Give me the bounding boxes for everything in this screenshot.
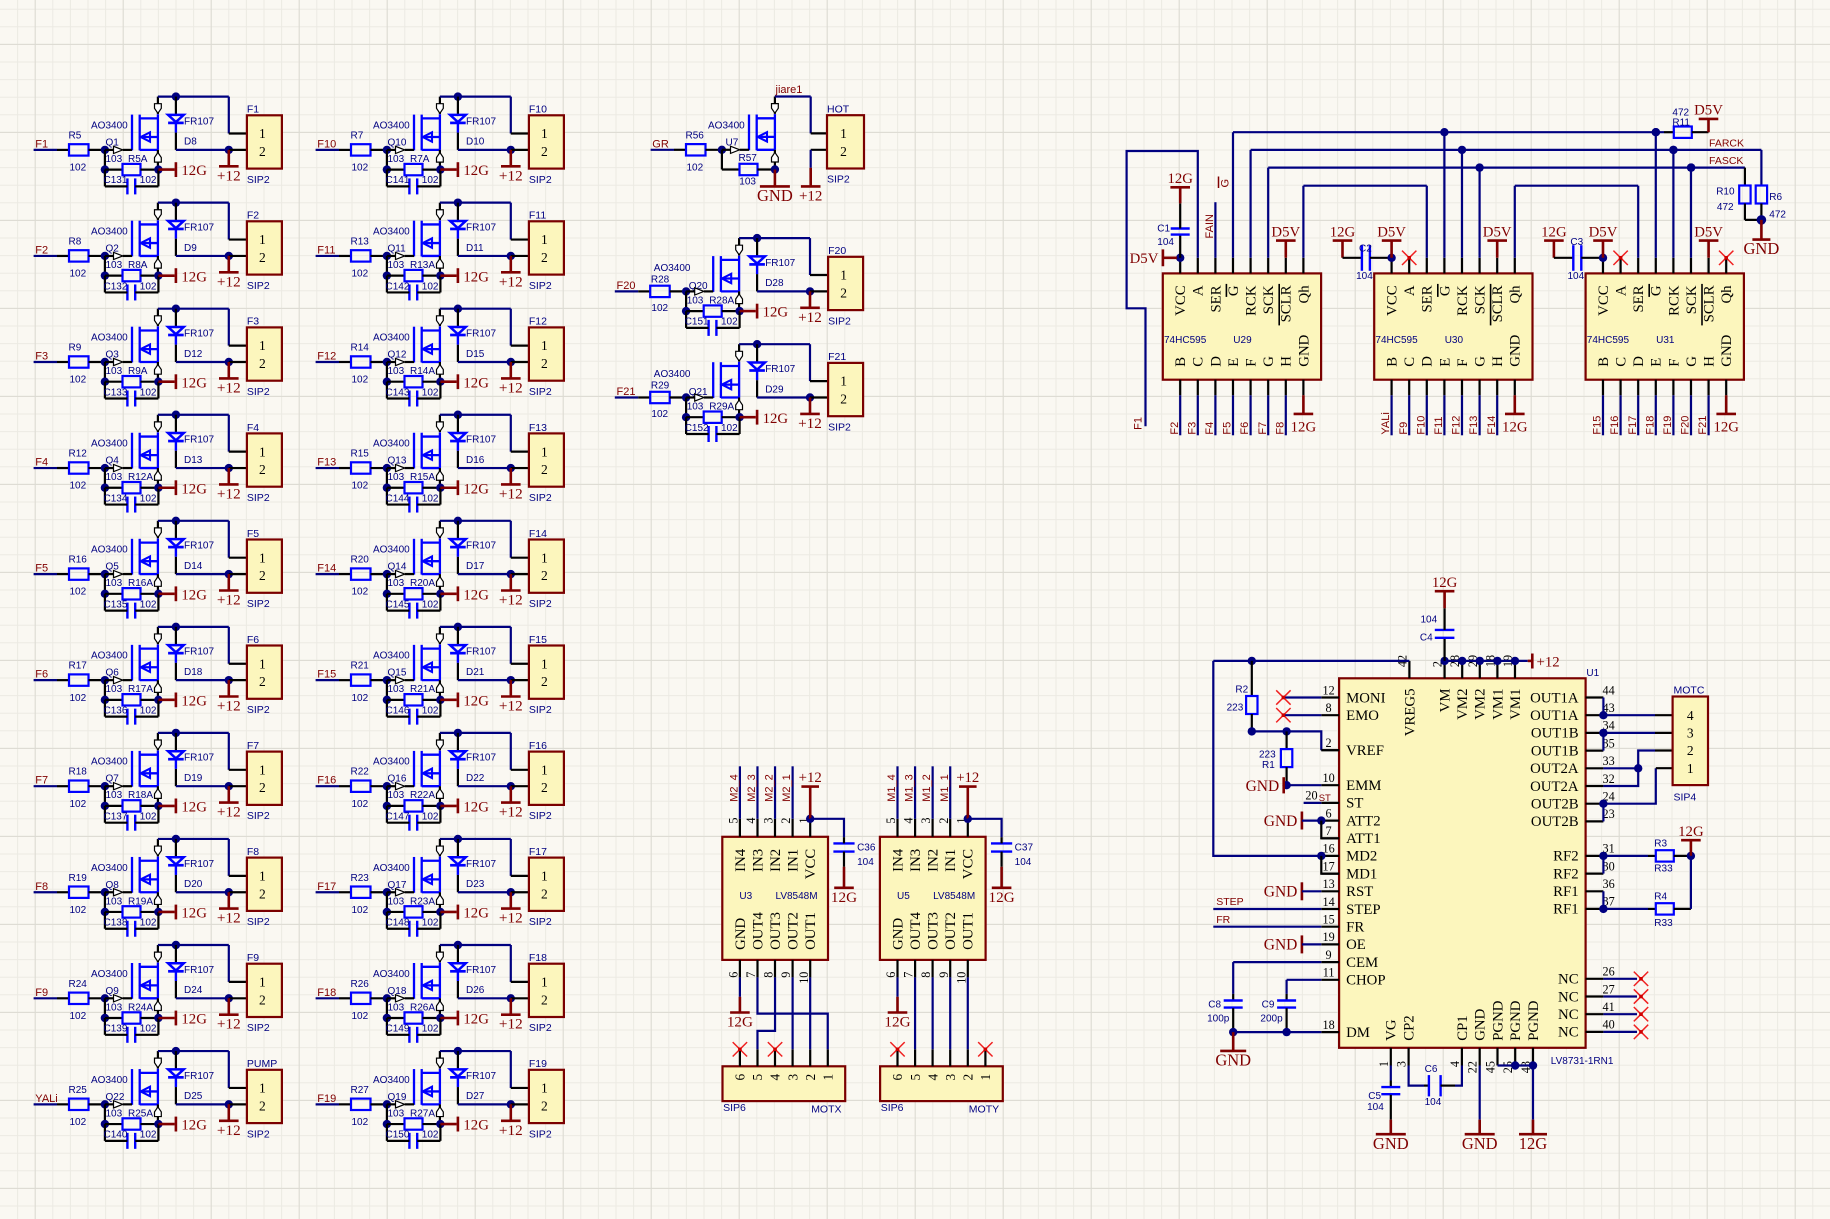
- junction: [1652, 128, 1660, 136]
- junction: [1511, 1061, 1519, 1069]
- svg-text:SIP2: SIP2: [247, 598, 270, 610]
- wire FASCK drop: [1744, 168, 1746, 186]
- svg-text:G: G: [1684, 356, 1700, 367]
- svg-text:U31: U31: [1656, 335, 1675, 346]
- junction: [383, 252, 391, 260]
- svg-text:12G: 12G: [1330, 224, 1356, 240]
- wire VM bus: [1444, 660, 1528, 662]
- svg-text:F10: F10: [317, 138, 336, 150]
- svg-text:2: 2: [541, 568, 548, 583]
- power +12: [499, 998, 523, 1032]
- svg-text:1: 1: [541, 126, 548, 141]
- svg-text:F13: F13: [1468, 416, 1480, 435]
- wire: [440, 805, 456, 808]
- svg-text:12G: 12G: [181, 269, 207, 285]
- power 12G: [757, 410, 788, 427]
- svg-text:104: 104: [1356, 271, 1373, 282]
- junction: [383, 358, 391, 366]
- power +12: [499, 468, 523, 502]
- pin 22 GND: [1466, 1008, 1489, 1073]
- svg-text:19: 19: [1323, 930, 1335, 944]
- svg-text:SIP2: SIP2: [529, 174, 552, 186]
- svg-text:102: 102: [422, 493, 439, 504]
- svg-text:SIP2: SIP2: [247, 1128, 270, 1140]
- svg-text:C: C: [1614, 357, 1630, 367]
- wire G: [1443, 132, 1445, 258]
- pin 24 OUT2B: [1531, 790, 1615, 813]
- power 12G: [458, 268, 489, 285]
- wire: [1285, 395, 1287, 435]
- svg-text:SCK: SCK: [1684, 285, 1700, 314]
- power +12: [217, 468, 241, 502]
- resistor R18: [57, 781, 105, 792]
- svg-text:F7: F7: [1257, 422, 1269, 435]
- wire NC: [1603, 1031, 1637, 1033]
- wire: [104, 680, 106, 700]
- junction: [1599, 852, 1607, 860]
- resistor R10: [1739, 186, 1750, 220]
- junction: [225, 782, 233, 790]
- svg-text:3: 3: [1687, 726, 1694, 741]
- resistor R7A: [387, 164, 441, 175]
- svg-text:1: 1: [541, 975, 548, 990]
- wire: [104, 574, 106, 594]
- svg-text:D: D: [1631, 356, 1647, 367]
- junction: [454, 92, 462, 100]
- svg-text:+12: +12: [799, 770, 822, 786]
- svg-text:472: 472: [1769, 210, 1786, 221]
- resistor R16A: [105, 588, 158, 599]
- junction: [1634, 764, 1642, 772]
- wire: [158, 592, 174, 595]
- svg-text:OUT4: OUT4: [908, 911, 924, 949]
- svg-text:F13: F13: [317, 457, 336, 469]
- resistor R8: [57, 250, 105, 261]
- wire: [158, 202, 229, 204]
- junction: [172, 305, 180, 313]
- wire: [511, 785, 529, 787]
- svg-text:SIP2: SIP2: [828, 421, 851, 433]
- power +12: [499, 680, 523, 714]
- svg-text:F8: F8: [35, 881, 48, 893]
- wire: [158, 805, 174, 808]
- wire: [34, 255, 57, 257]
- svg-text:+12: +12: [1537, 654, 1560, 670]
- wire: [774, 766, 776, 819]
- svg-text:102: 102: [140, 918, 157, 929]
- svg-text:D26: D26: [466, 985, 485, 996]
- svg-text:1: 1: [541, 338, 548, 353]
- svg-text:74HC595: 74HC595: [1375, 335, 1418, 346]
- junction: [172, 517, 180, 525]
- svg-text:5: 5: [884, 818, 898, 824]
- wire: [1496, 395, 1498, 435]
- connector F6 SIP2: [247, 634, 282, 716]
- wire: [458, 997, 511, 999]
- svg-text:MOTC: MOTC: [1674, 684, 1705, 696]
- junction: [225, 358, 233, 366]
- svg-text:AO3400: AO3400: [91, 969, 128, 980]
- svg-text:OUT2A: OUT2A: [1530, 761, 1579, 777]
- svg-text:DM: DM: [1346, 1025, 1370, 1041]
- junction: [101, 888, 109, 896]
- power 12G: [176, 1011, 207, 1028]
- wire: [651, 149, 674, 151]
- wire: [511, 1087, 529, 1089]
- no-connect X: [1276, 690, 1290, 704]
- junction: [454, 1047, 462, 1055]
- junction: [806, 815, 814, 823]
- svg-text:R26: R26: [351, 979, 370, 990]
- svg-text:AO3400: AO3400: [373, 757, 410, 768]
- wire: [739, 766, 741, 819]
- svg-text:100p: 100p: [1207, 1014, 1230, 1025]
- wire: [34, 1103, 57, 1105]
- wire: [158, 1050, 229, 1052]
- svg-text:F8: F8: [247, 846, 259, 858]
- power 12G: [989, 867, 1015, 906]
- svg-text:AO3400: AO3400: [91, 545, 128, 556]
- svg-text:12G: 12G: [181, 1118, 207, 1134]
- svg-text:NC: NC: [1558, 1007, 1579, 1023]
- svg-text:F19: F19: [529, 1058, 547, 1070]
- wire: [1321, 856, 1339, 874]
- svg-text:SER: SER: [1420, 285, 1436, 312]
- svg-text:R19: R19: [69, 873, 88, 884]
- junction: [1599, 254, 1607, 262]
- svg-text:FR107: FR107: [466, 116, 496, 127]
- wire: [510, 415, 512, 452]
- svg-text:12G: 12G: [181, 906, 207, 922]
- pin 43 PGND: [1519, 1000, 1542, 1073]
- svg-text:jiare1: jiare1: [775, 84, 803, 96]
- junction: [225, 888, 233, 896]
- resistor R7: [339, 144, 387, 155]
- wire: [386, 594, 388, 611]
- svg-text:RCK: RCK: [1244, 285, 1260, 316]
- pin 19 VM1: [1501, 655, 1524, 720]
- svg-text:AO3400: AO3400: [373, 120, 410, 131]
- transistor Q8 AO3400: [105, 839, 161, 912]
- power 12G: [176, 374, 207, 391]
- wire: [738, 417, 740, 434]
- svg-text:YALi: YALi: [35, 1093, 57, 1105]
- svg-text:F19: F19: [1662, 416, 1674, 435]
- junction: [753, 340, 761, 348]
- svg-text:103: 103: [388, 896, 405, 907]
- svg-text:SCLR: SCLR: [1490, 285, 1506, 322]
- svg-text:44: 44: [1603, 683, 1615, 697]
- wire: [1302, 943, 1321, 945]
- transistor Q3 AO3400: [105, 309, 161, 382]
- svg-text:AO3400: AO3400: [91, 439, 128, 450]
- junction: [101, 994, 109, 1002]
- svg-text:A: A: [1191, 285, 1207, 296]
- junction: [436, 1014, 444, 1022]
- junction: [454, 198, 462, 206]
- IC U29 74HC595: [1163, 258, 1321, 396]
- capacitor C148: [386, 918, 441, 937]
- svg-text:5: 5: [750, 1074, 765, 1081]
- svg-text:12G: 12G: [1432, 575, 1458, 591]
- transistor Q5 AO3400: [105, 521, 161, 594]
- junction: [964, 815, 972, 823]
- wire: [811, 132, 827, 134]
- svg-text:R28: R28: [651, 274, 670, 285]
- resistor R2: [1246, 661, 1257, 732]
- wire: [721, 150, 723, 170]
- svg-text:E: E: [1437, 358, 1453, 367]
- power +12: [217, 1104, 241, 1138]
- wire: [1321, 749, 1339, 751]
- resistor R17: [57, 674, 105, 685]
- junction: [172, 92, 180, 100]
- junction: [682, 413, 690, 421]
- svg-text:AO3400: AO3400: [373, 651, 410, 662]
- svg-text:R5: R5: [69, 130, 82, 141]
- svg-text:SIP2: SIP2: [529, 280, 552, 292]
- svg-text:OUT2: OUT2: [943, 912, 959, 950]
- svg-text:VCC: VCC: [1596, 285, 1612, 316]
- svg-text:F2: F2: [35, 244, 48, 256]
- svg-text:R1: R1: [1262, 760, 1275, 771]
- no-connect X: [890, 1042, 904, 1056]
- junction: [383, 782, 391, 790]
- svg-text:10: 10: [797, 972, 811, 984]
- wire MD: [1213, 661, 1321, 856]
- junction: [383, 1014, 391, 1022]
- svg-text:103: 103: [106, 684, 123, 695]
- svg-text:M2_1: M2_1: [781, 774, 793, 802]
- junction: [1387, 254, 1395, 262]
- no-connect X: [1402, 251, 1416, 265]
- wire: [511, 997, 529, 999]
- svg-text:C145: C145: [386, 599, 410, 610]
- wire Qh chain: [1514, 186, 1516, 258]
- wire EMO: [1284, 714, 1321, 716]
- svg-text:EMM: EMM: [1346, 778, 1381, 794]
- transistor Q17 AO3400: [387, 839, 443, 912]
- wire: [176, 1103, 229, 1105]
- svg-text:D25: D25: [184, 1091, 203, 1102]
- power 12G: [458, 586, 489, 603]
- capacitor C133: [104, 387, 159, 406]
- svg-text:1: 1: [541, 656, 548, 671]
- junction: [172, 198, 180, 206]
- svg-text:74HC595: 74HC595: [1587, 335, 1630, 346]
- svg-text:R23: R23: [351, 873, 370, 884]
- svg-text:F: F: [1666, 358, 1682, 366]
- svg-text:C144: C144: [386, 493, 410, 504]
- svg-text:12G: 12G: [463, 269, 489, 285]
- wire: [34, 679, 57, 681]
- svg-text:3: 3: [919, 818, 933, 824]
- wire G-net rail: [1233, 131, 1664, 133]
- svg-text:D13: D13: [184, 455, 203, 466]
- wire: [1532, 1066, 1534, 1120]
- svg-text:F18: F18: [317, 987, 336, 999]
- resistor R3: [1648, 850, 1691, 861]
- svg-text:102: 102: [352, 269, 369, 280]
- diode D20 FR107: [168, 839, 184, 892]
- svg-text:OUT2A: OUT2A: [1530, 779, 1579, 795]
- svg-text:FR107: FR107: [466, 859, 496, 870]
- svg-text:74HC595: 74HC595: [1164, 335, 1207, 346]
- svg-text:M2_4: M2_4: [729, 774, 741, 802]
- svg-text:104: 104: [1421, 614, 1438, 625]
- svg-text:FR107: FR107: [184, 753, 214, 764]
- junction: [507, 570, 515, 578]
- connector F17 SIP2: [529, 846, 564, 928]
- svg-text:F9: F9: [247, 952, 259, 964]
- resistor R20A: [387, 588, 441, 599]
- junction: [383, 994, 391, 1002]
- capacitor C144: [386, 493, 441, 512]
- resistor R19: [57, 887, 105, 898]
- svg-text:102: 102: [70, 693, 87, 704]
- svg-text:FR107: FR107: [184, 435, 214, 446]
- svg-text:U3: U3: [739, 891, 752, 902]
- wire: [316, 255, 339, 257]
- wire: [386, 256, 388, 276]
- svg-text:103: 103: [388, 790, 405, 801]
- pin 33 OUT2A: [1530, 754, 1615, 777]
- svg-text:F3: F3: [1186, 422, 1198, 435]
- power D5V: [1694, 224, 1723, 257]
- svg-text:SIP2: SIP2: [828, 315, 851, 327]
- svg-text:R25: R25: [69, 1085, 88, 1096]
- wire: [967, 977, 969, 1049]
- wire: [386, 468, 388, 488]
- svg-text:F20: F20: [1680, 416, 1692, 435]
- pin 9 CEM: [1321, 948, 1378, 971]
- svg-text:103: 103: [106, 366, 123, 377]
- wire: [1672, 395, 1674, 435]
- svg-text:R2: R2: [1235, 685, 1248, 696]
- no-connect X: [733, 1042, 747, 1056]
- capacitor C135: [104, 599, 159, 618]
- svg-text:GND: GND: [757, 186, 793, 205]
- svg-text:32: 32: [1603, 772, 1615, 786]
- svg-text:IN2: IN2: [768, 849, 784, 872]
- svg-text:D9: D9: [184, 243, 197, 254]
- junction: [436, 802, 444, 810]
- svg-text:4: 4: [1687, 708, 1694, 723]
- svg-text:F16: F16: [317, 775, 336, 787]
- svg-text:+12: +12: [499, 167, 523, 184]
- wire: [104, 912, 106, 929]
- svg-text:2: 2: [259, 462, 266, 477]
- wire: [228, 733, 230, 770]
- wire: [158, 486, 174, 489]
- svg-text:102: 102: [140, 1130, 157, 1141]
- svg-text:103: 103: [388, 260, 405, 271]
- resistor R23A: [387, 906, 441, 917]
- wire CP2-C6-CP1: [1409, 1066, 1424, 1086]
- svg-text:R8: R8: [69, 236, 82, 247]
- junction: [1529, 1061, 1537, 1069]
- svg-text:2: 2: [840, 285, 847, 300]
- svg-text:102: 102: [352, 163, 369, 174]
- wire: [809, 977, 811, 1049]
- wire: [386, 276, 388, 293]
- connector MOTC SIP4: [1673, 684, 1708, 803]
- wire: [440, 202, 511, 204]
- wire: [176, 573, 229, 575]
- junction: [101, 1100, 109, 1108]
- pin 37 RF1: [1553, 895, 1615, 918]
- junction: [1282, 781, 1290, 789]
- pin 40 NC: [1558, 1018, 1615, 1041]
- junction: [383, 590, 391, 598]
- wire: [932, 977, 934, 1049]
- svg-text:R20: R20: [351, 555, 370, 566]
- svg-text:27: 27: [1603, 982, 1615, 996]
- pin 42 VREG5: [1395, 655, 1418, 736]
- svg-text:2: 2: [541, 144, 548, 159]
- svg-text:+12: +12: [799, 188, 822, 204]
- pin 10 EMM: [1321, 771, 1381, 794]
- svg-text:A: A: [1402, 285, 1418, 296]
- junction: [682, 393, 690, 401]
- wire: [229, 1103, 247, 1105]
- svg-text:12G: 12G: [181, 481, 207, 497]
- svg-text:12G: 12G: [763, 411, 789, 427]
- svg-text:12G: 12G: [181, 375, 207, 391]
- wire: [386, 574, 388, 594]
- svg-text:103: 103: [388, 578, 405, 589]
- junction: [735, 307, 743, 315]
- svg-text:12G: 12G: [181, 800, 207, 816]
- wire: [1637, 395, 1639, 435]
- wire: [809, 344, 811, 381]
- wire: [510, 97, 512, 134]
- svg-text:FR107: FR107: [466, 541, 496, 552]
- junction: [172, 835, 180, 843]
- wire: [511, 255, 529, 257]
- svg-text:+12: +12: [217, 592, 241, 609]
- svg-text:D18: D18: [184, 667, 203, 678]
- svg-text:R3: R3: [1654, 838, 1667, 849]
- wire SER-FAIN: [1214, 202, 1216, 258]
- wire: [458, 573, 511, 575]
- junction: [154, 590, 162, 598]
- svg-text:OUT1B: OUT1B: [1531, 743, 1579, 759]
- svg-text:12G: 12G: [1713, 419, 1739, 435]
- junction: [507, 676, 515, 684]
- svg-text:OUT2: OUT2: [786, 912, 802, 950]
- svg-text:104: 104: [1568, 271, 1585, 282]
- svg-text:U1: U1: [1586, 668, 1599, 679]
- diode D10 FR107: [450, 97, 466, 150]
- svg-text:F16: F16: [529, 740, 547, 752]
- wire: [158, 308, 229, 310]
- svg-text:AO3400: AO3400: [91, 226, 128, 237]
- svg-text:SIP2: SIP2: [247, 492, 270, 504]
- junction: [1282, 1028, 1290, 1036]
- svg-text:17: 17: [1323, 859, 1335, 873]
- wire: [1655, 732, 1673, 734]
- svg-text:1: 1: [259, 444, 266, 459]
- svg-text:102: 102: [352, 375, 369, 386]
- wire: [1252, 731, 1322, 750]
- power 12G: [176, 480, 207, 497]
- svg-text:C5: C5: [1368, 1091, 1381, 1102]
- junction: [101, 676, 109, 684]
- junction: [806, 393, 814, 401]
- svg-text:D5V: D5V: [1130, 251, 1159, 267]
- power +12: [499, 150, 523, 184]
